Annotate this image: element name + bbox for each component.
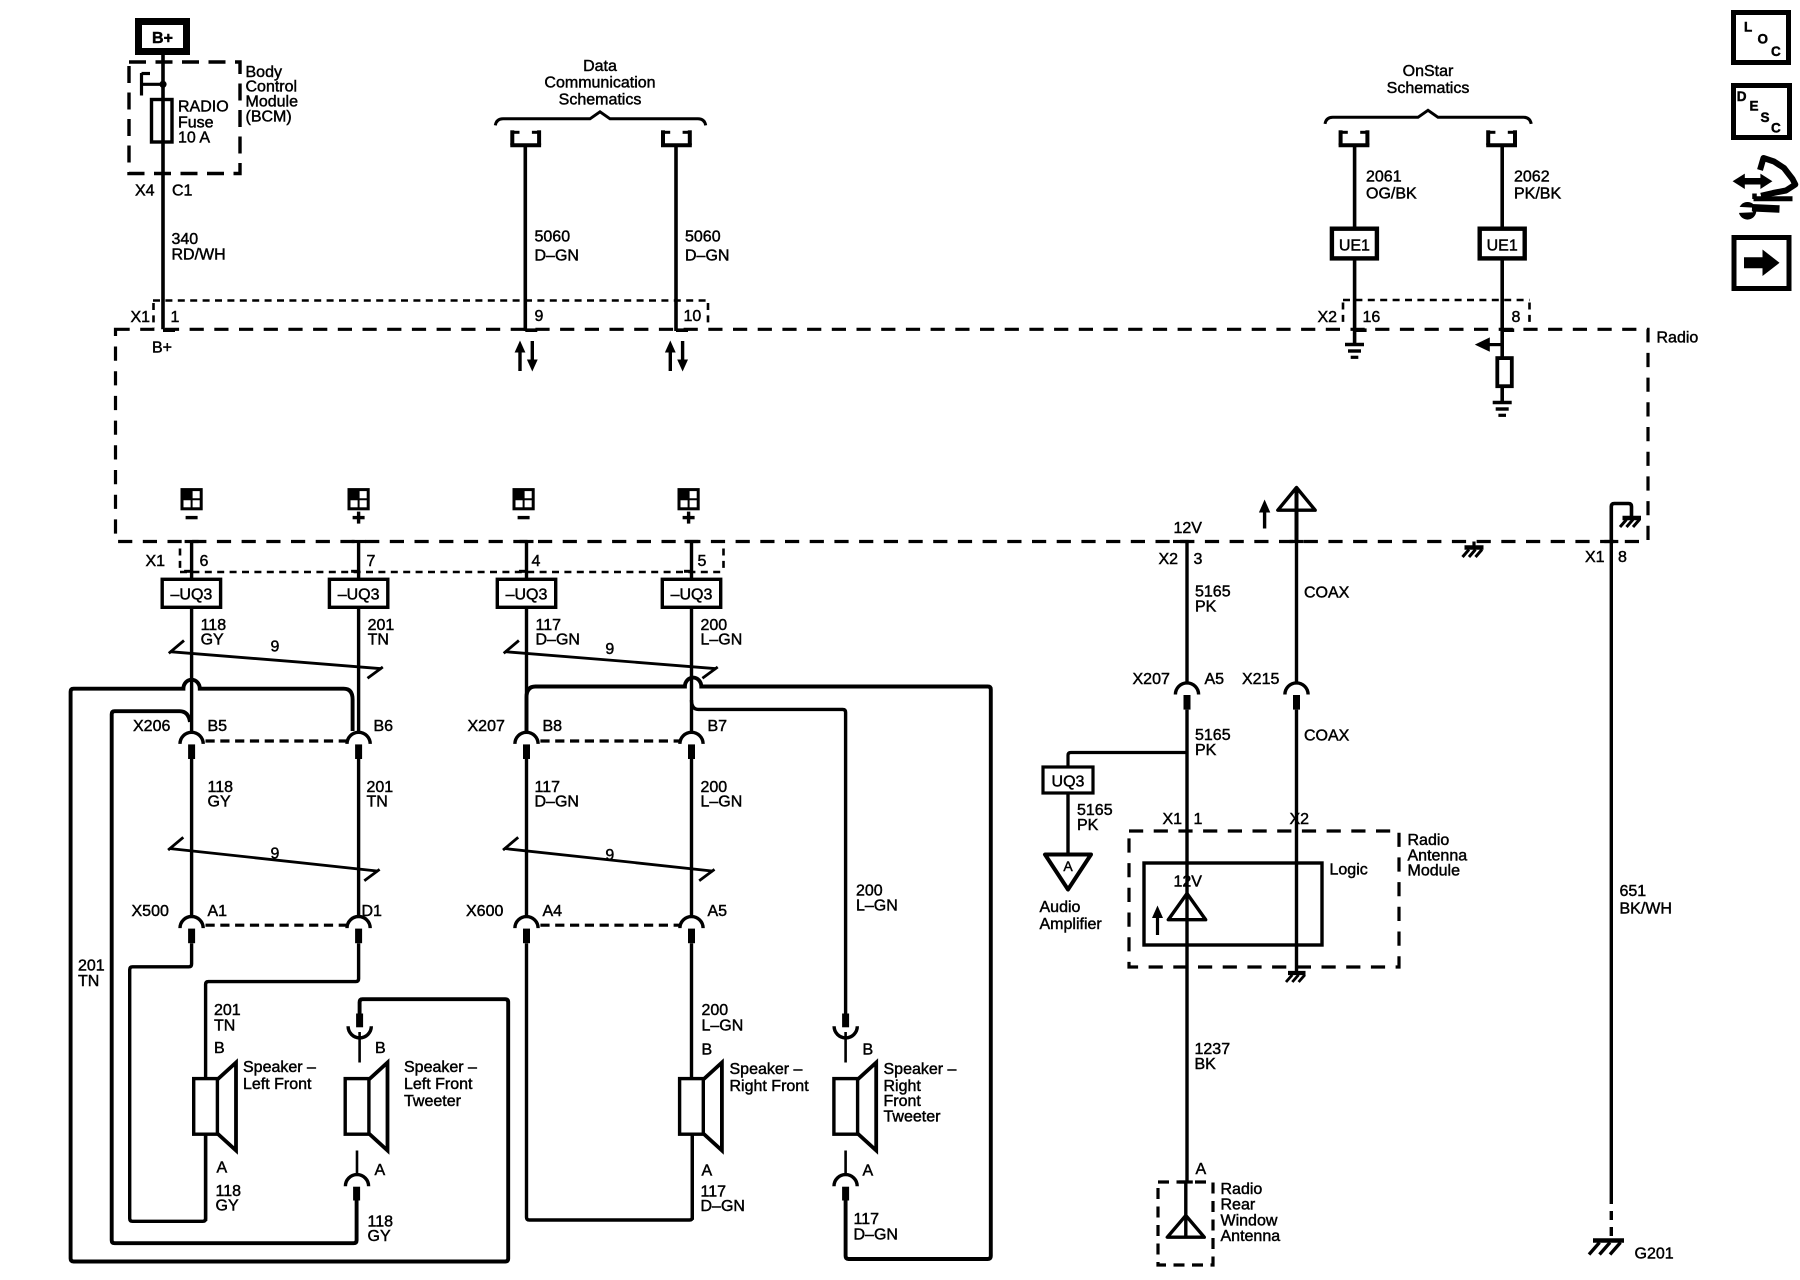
wire 117 D-GN branch to right loop (B8 to tweeter A feed) [527, 678, 991, 1259]
svg-text:L: L [1744, 20, 1752, 35]
resistor on pin 8 wire [1497, 358, 1512, 386]
module Radio Antenna Module dashed box [1129, 831, 1399, 967]
wire LF speaker A below [204, 1134, 207, 1221]
antenna symbol inside logic box [1168, 894, 1205, 920]
up arrow inside logic box [1152, 906, 1163, 936]
chassis ground below radio box [1463, 542, 1484, 558]
connector LF tweeter B [348, 1014, 371, 1063]
pin foot radio pin 1 [163, 328, 175, 332]
wire 117 D-GN A4 to RF speaker A [527, 943, 693, 1220]
svg-text:X500: X500 [132, 903, 169, 920]
label Radio Rear Window Antenna [1221, 1181, 1281, 1245]
wire radio pin 6 to splice UQ3 [190, 542, 193, 580]
pin foot radio pin 10 [676, 328, 688, 332]
svg-text:OnStar: OnStar [1403, 63, 1454, 80]
svg-text:D–GN: D–GN [685, 248, 729, 265]
svg-text:L–GN: L–GN [701, 632, 743, 649]
svg-text:–UQ3: –UQ3 [671, 587, 713, 604]
svg-text:A: A [217, 1160, 228, 1177]
svg-text:X1: X1 [1163, 811, 1183, 828]
svg-text:Right Front: Right Front [730, 1078, 810, 1095]
label 5060 D-GN left [535, 229, 579, 265]
label 651 BK/WH [1620, 883, 1672, 918]
svg-text:Amplifier: Amplifier [1040, 916, 1103, 933]
svg-text:Left Front: Left Front [243, 1076, 312, 1093]
svg-text:X207: X207 [1133, 671, 1170, 688]
svg-text:A: A [375, 1162, 386, 1179]
label 5165 PK mid [1195, 727, 1231, 759]
wire COAX X215 to logic box [1295, 710, 1298, 945]
label 117 D-GN mid [535, 779, 579, 811]
label 117 D-GN upper [536, 617, 580, 649]
speaker Left Front Tweeter [345, 1063, 387, 1151]
svg-text:X1: X1 [1585, 549, 1605, 566]
continuation arrow left on pin 8 wire [1475, 337, 1504, 351]
svg-text:B8: B8 [543, 718, 563, 735]
wire 2061 OG/BK upper [1353, 147, 1357, 229]
wire 200 L-GN branch B7 to right tweeter B [692, 700, 846, 1014]
serial data arrows pin 9 [515, 341, 538, 372]
svg-text:8: 8 [1618, 549, 1627, 566]
connector band X1 top of radio [153, 301, 708, 329]
svg-text:PK: PK [1077, 817, 1099, 834]
svg-text:200: 200 [702, 1002, 729, 1019]
connector LF tweeter A [345, 1151, 368, 1201]
svg-text:5060: 5060 [535, 229, 571, 246]
svg-text:5060: 5060 [685, 229, 721, 246]
svg-text:UQ3: UQ3 [1052, 774, 1085, 791]
svg-text:UE1: UE1 [1339, 238, 1370, 255]
svg-text:Window: Window [1221, 1213, 1278, 1230]
svg-text:S: S [1761, 110, 1770, 125]
svg-text:9: 9 [605, 641, 614, 658]
label 201 TN mid [367, 779, 394, 811]
svg-text:TN: TN [214, 1018, 235, 1035]
icon DESC box [1734, 86, 1790, 138]
icon LOC box [1734, 13, 1789, 63]
label Speaker - Left Front [243, 1059, 316, 1093]
svg-text:1: 1 [1194, 811, 1203, 828]
svg-text:B: B [214, 1040, 225, 1057]
label 117 D-GN RF speaker A [701, 1184, 745, 1216]
label 117 D-GN RF tweeter A [854, 1211, 898, 1244]
audio amplifier triangle A [1045, 855, 1091, 890]
svg-text:B7: B7 [708, 718, 728, 735]
svg-text:X215: X215 [1242, 671, 1279, 688]
brace data communication [495, 112, 705, 126]
wire 2062 PK/BK lower [1500, 258, 1504, 358]
option box -UQ3 wire 118 [162, 579, 220, 607]
label 200 L-GN RF speaker B [702, 1002, 744, 1035]
svg-text:(BCM): (BCM) [246, 109, 292, 126]
connector X500 [132, 903, 383, 943]
wire dashed segment to G201 [1610, 1195, 1613, 1236]
connector symbol onstar wire 16 [1339, 130, 1370, 145]
connector symbol data wire 9 [510, 130, 541, 145]
svg-text:O: O [1758, 32, 1769, 47]
label 5060 D-GN right [685, 229, 729, 265]
wire 200 L-GN to X207 B7 [690, 607, 693, 732]
wire radio pin 7 to splice UQ3 [357, 542, 360, 580]
svg-text:Logic: Logic [1330, 862, 1368, 879]
splice box UE1 left [1332, 229, 1377, 259]
svg-text:9: 9 [271, 639, 280, 656]
svg-text:Radio: Radio [1657, 330, 1699, 347]
svg-text:D–GN: D–GN [535, 794, 579, 811]
svg-text:A4: A4 [543, 903, 563, 920]
ground symbol below resistor [1493, 403, 1512, 416]
svg-text:A5: A5 [1205, 671, 1225, 688]
svg-text:B: B [375, 1040, 386, 1057]
rear window antenna symbol [1167, 1182, 1204, 1237]
connector symbol data wire 10 [661, 130, 692, 145]
svg-text:117: 117 [854, 1211, 880, 1228]
icon diagnostic double arrow and wrench [1733, 158, 1796, 220]
label 340 RD/WH [172, 231, 226, 264]
svg-text:D–GN: D–GN [535, 248, 579, 265]
svg-text:L–GN: L–GN [856, 898, 898, 915]
icon forward arrow box [1734, 238, 1789, 289]
svg-text:TN: TN [367, 794, 388, 811]
label 118 GY mid [208, 779, 234, 811]
serial data arrows pin 10 [665, 341, 688, 372]
chassis ground below logic box coax [1286, 945, 1306, 982]
connector RF tweeter A [834, 1151, 857, 1201]
option box -UQ3 wire 201 [329, 579, 387, 607]
speaker Left Front [194, 1063, 236, 1151]
svg-text:7: 7 [367, 553, 376, 570]
label RADIO Fuse 10 A [178, 99, 229, 147]
svg-text:C: C [1771, 121, 1781, 136]
speaker output icon pin 7 [349, 490, 368, 509]
wire 201 TN X206 B6 to X500 D1 [357, 759, 360, 917]
label 2061 OG/BK [1366, 169, 1417, 203]
label 1237 BK [1195, 1041, 1231, 1073]
svg-text:340: 340 [172, 231, 199, 248]
wire 201 TN branch to big loop (B6 to tweeter B feed) [71, 680, 509, 1262]
wire 117 D-GN X207 B8 to X600 A4 [525, 759, 528, 917]
svg-text:TN: TN [368, 632, 389, 649]
svg-text:COAX: COAX [1304, 585, 1350, 602]
BCM internal contact symbol [142, 73, 167, 96]
wire 5060 D-GN right [674, 147, 678, 331]
wire 340 RD/WH fuse to radio pin 1 [161, 142, 165, 329]
module Radio Rear Window Antenna dashed box [1158, 1182, 1213, 1265]
svg-text:201: 201 [78, 958, 105, 975]
wire 2061 OG/BK lower [1353, 258, 1357, 343]
svg-text:Module: Module [1408, 863, 1461, 880]
label 201 TN upper [368, 617, 395, 649]
label Speaker - Right Front Tweeter [884, 1061, 957, 1126]
svg-text:10 A: 10 A [178, 130, 210, 147]
label 200 L-GN upper [701, 617, 743, 649]
label Radio Antenna Module [1408, 832, 1468, 880]
wire resistor to ground [1500, 386, 1504, 401]
svg-text:4: 4 [532, 553, 541, 570]
connector X215 [1242, 671, 1308, 710]
svg-text:B+: B+ [152, 340, 172, 357]
svg-text:A5: A5 [708, 903, 728, 920]
svg-text:D1: D1 [362, 903, 383, 920]
splice box UQ3 [1043, 767, 1093, 793]
option box -UQ3 wire 200 [662, 579, 720, 607]
connector X206 [133, 718, 393, 759]
svg-text:X2: X2 [1290, 811, 1310, 828]
svg-text:201: 201 [214, 1002, 241, 1019]
svg-text:X206: X206 [133, 718, 170, 735]
label 200 L-GN tweeter branch [856, 883, 898, 915]
svg-text:E: E [1750, 99, 1759, 114]
svg-text:16: 16 [1363, 309, 1381, 326]
svg-text:B: B [863, 1042, 874, 1059]
svg-text:A: A [1196, 1161, 1207, 1178]
svg-text:–UQ3: –UQ3 [171, 587, 213, 604]
svg-text:Radio: Radio [1221, 1181, 1263, 1198]
wire 2062 PK/BK upper [1500, 147, 1504, 229]
ground G201 [1589, 1241, 1624, 1255]
label Data Communication Schematics [544, 58, 655, 109]
svg-text:D–GN: D–GN [701, 1198, 745, 1215]
svg-text:1: 1 [171, 309, 180, 326]
wire 5165 PK radio X2-3 to X207 A5 [1185, 542, 1188, 685]
svg-text:UE1: UE1 [1487, 238, 1518, 255]
speaker output icon pin 4 [514, 490, 533, 509]
svg-text:Rear: Rear [1221, 1197, 1256, 1214]
label X4 C1 [135, 183, 193, 200]
label 118 GY LF speaker A [216, 1183, 242, 1215]
svg-text:L–GN: L–GN [701, 794, 743, 811]
svg-text:3: 3 [1194, 551, 1203, 568]
label 118 GY upper [201, 617, 227, 649]
wire 201 TN to X206 B6 [357, 607, 360, 732]
label 200 L-GN mid [701, 779, 743, 811]
svg-text:L–GN: L–GN [702, 1018, 744, 1035]
wire 200 L-GN X207 B7 to X600 A5 [690, 759, 693, 917]
fuse RADIO Fuse 10 A [152, 100, 173, 143]
speaker Right Front [680, 1063, 722, 1151]
svg-text:–UQ3: –UQ3 [338, 587, 380, 604]
svg-text:BK/WH: BK/WH [1620, 901, 1672, 918]
svg-text:Speaker –: Speaker – [730, 1061, 803, 1078]
svg-text:BK: BK [1195, 1056, 1217, 1073]
svg-text:Speaker –: Speaker – [404, 1059, 477, 1076]
svg-text:D–GN: D–GN [854, 1227, 898, 1244]
svg-text:X2: X2 [1159, 551, 1179, 568]
svg-text:Schematics: Schematics [1387, 80, 1470, 97]
pin foot radio pin 8 top [1502, 328, 1514, 332]
wire RF speaker A below [691, 1134, 694, 1220]
wire 118 GY A1 to LF speaker A [130, 943, 206, 1221]
svg-text:OG/BK: OG/BK [1366, 186, 1417, 203]
connector X207 [468, 718, 728, 759]
power symbol B+ [139, 22, 187, 52]
svg-text:C: C [1771, 44, 1781, 59]
svg-text:Antenna: Antenna [1221, 1228, 1281, 1245]
svg-text:Data: Data [583, 58, 617, 75]
wire 5165 PK A5 to antenna module X1-1 [1185, 710, 1188, 920]
svg-text:9: 9 [605, 847, 614, 864]
svg-text:Left Front: Left Front [404, 1076, 473, 1093]
wire 117 D-GN to X207 B8 [525, 607, 528, 732]
svg-text:PK: PK [1195, 599, 1217, 616]
wire B+ to BCM [161, 55, 165, 143]
svg-text:X2: X2 [1318, 309, 1338, 326]
svg-text:Front: Front [884, 1093, 922, 1110]
module Body Control Module (BCM) dashed box [129, 62, 240, 174]
svg-text:G201: G201 [1635, 1246, 1674, 1263]
chassis ground inside radio at pin X1-8 [1611, 504, 1641, 542]
svg-text:Communication: Communication [544, 75, 655, 92]
svg-text:10: 10 [684, 308, 702, 325]
svg-text:5: 5 [698, 553, 707, 570]
antenna symbol inside radio [1278, 488, 1315, 542]
label Audio Amplifier [1040, 899, 1103, 933]
plus sign pin 7 [353, 512, 365, 524]
svg-text:–UQ3: –UQ3 [506, 587, 548, 604]
svg-text:GY: GY [368, 1228, 391, 1245]
twisted pair symbol right upper [504, 641, 718, 679]
label Speaker - Left Front Tweeter [404, 1059, 477, 1110]
label Body Control Module (BCM) [246, 64, 299, 126]
connector RF tweeter B [834, 1014, 857, 1063]
svg-text:Speaker –: Speaker – [884, 1061, 957, 1078]
connector band X2 onstar [1343, 300, 1530, 323]
wire COAX antenna to module [1295, 542, 1298, 685]
svg-text:Radio: Radio [1408, 832, 1450, 849]
ground symbol below pin 16 [1345, 345, 1364, 358]
wire 1237 BK logic to rear window antenna [1185, 920, 1188, 1182]
wire 118 GY X206 B5 to X500 A1 [190, 759, 193, 917]
label 118 GY LF tweeter A [368, 1214, 394, 1246]
connector symbol onstar wire 8 [1486, 130, 1517, 145]
svg-text:D–GN: D–GN [536, 632, 580, 649]
svg-text:651: 651 [1620, 883, 1647, 900]
svg-text:A: A [863, 1163, 874, 1180]
svg-text:GY: GY [201, 632, 224, 649]
label 201 TN LF speaker B [214, 1002, 241, 1035]
svg-text:2061: 2061 [1366, 169, 1402, 186]
wire branch to audio amplifier [1068, 753, 1187, 768]
twisted pair symbol left lower [168, 837, 380, 880]
twisted pair symbol right lower [503, 837, 715, 880]
svg-text:PK: PK [1195, 742, 1217, 759]
svg-text:8: 8 [1512, 309, 1521, 326]
svg-text:12V: 12V [1174, 874, 1203, 891]
label X1 1 antenna module [1163, 811, 1203, 828]
svg-text:Speaker –: Speaker – [243, 1059, 316, 1076]
label OnStar Schematics [1387, 63, 1470, 97]
wire 118 GY branch to tweeter A (B5 to x112 loop) [112, 711, 357, 1243]
label 5165 PK amplifier [1077, 802, 1113, 834]
svg-text:A: A [1063, 858, 1073, 874]
svg-text:12V: 12V [1174, 520, 1203, 537]
wire radio pin 4 to splice UQ3 [525, 542, 528, 580]
connector X207 A5 [1133, 671, 1225, 710]
pin ticks on radio bottom edge [185, 540, 1619, 543]
pin ticks at bottom connector band [184, 570, 691, 573]
plus sign pin 5 [683, 512, 695, 524]
svg-text:TN: TN [78, 973, 99, 990]
pin foot radio pin 9 [525, 328, 537, 332]
svg-text:B6: B6 [374, 718, 394, 735]
connector band X1 bottom of radio [180, 549, 724, 573]
svg-text:Schematics: Schematics [559, 92, 642, 109]
svg-text:GY: GY [216, 1198, 239, 1215]
label 5165 PK upper [1195, 584, 1231, 616]
svg-text:6: 6 [200, 553, 209, 570]
logic box [1144, 863, 1322, 945]
wire UQ3 to audio amplifier [1066, 793, 1069, 855]
label Speaker - Right Front [730, 1061, 810, 1095]
svg-text:Audio: Audio [1040, 899, 1081, 916]
twisted pair symbol left upper [169, 641, 383, 679]
wire 118 GY to X206 B5 [190, 607, 193, 732]
svg-text:X600: X600 [466, 903, 503, 920]
svg-text:9: 9 [535, 308, 544, 325]
splice box UE1 right [1480, 229, 1525, 259]
svg-text:GY: GY [208, 794, 231, 811]
wire 5060 D-GN left [523, 147, 527, 331]
svg-text:COAX: COAX [1304, 728, 1350, 745]
speaker Right Front Tweeter [834, 1063, 876, 1151]
speaker output icon pin 5 [679, 490, 698, 509]
wire radio pin 5 to splice UQ3 [690, 542, 693, 580]
wire 201 TN D1 to LF speaker B [206, 943, 359, 1078]
svg-text:B+: B+ [152, 30, 173, 47]
svg-text:RADIO: RADIO [178, 99, 229, 116]
pin foot radio pin 16 [1355, 328, 1367, 332]
option box -UQ3 wire 117 [497, 579, 555, 607]
brace onstar [1325, 110, 1531, 124]
svg-text:Tweeter: Tweeter [404, 1093, 462, 1110]
wire 200 L-GN A5 to RF speaker B [690, 943, 693, 1078]
svg-text:9: 9 [271, 846, 280, 863]
module Radio dashed box [116, 329, 1649, 541]
svg-text:PK/BK: PK/BK [1514, 186, 1561, 203]
speaker output icon pin 6 [182, 490, 201, 509]
svg-text:2062: 2062 [1514, 169, 1550, 186]
svg-text:X1: X1 [131, 309, 151, 326]
svg-text:X1: X1 [146, 553, 166, 570]
connector X600 [466, 903, 727, 943]
label 2062 PK/BK [1514, 169, 1561, 203]
svg-text:C1: C1 [172, 183, 193, 200]
minus sign pin 6 [186, 516, 198, 519]
up arrow beside antenna [1259, 500, 1270, 529]
svg-text:X4: X4 [135, 183, 155, 200]
minus sign pin 4 [518, 516, 530, 519]
wire 651 BK/WH radio X1-8 to G201 [1610, 542, 1613, 1196]
svg-text:Tweeter: Tweeter [884, 1109, 942, 1126]
svg-text:X207: X207 [468, 718, 505, 735]
svg-text:D: D [1737, 89, 1747, 104]
label 201 TN big loop [78, 958, 105, 991]
svg-text:A: A [702, 1163, 713, 1180]
svg-text:A1: A1 [208, 903, 228, 920]
svg-text:RD/WH: RD/WH [172, 247, 226, 264]
svg-text:B5: B5 [208, 718, 228, 735]
svg-text:B: B [702, 1042, 713, 1059]
